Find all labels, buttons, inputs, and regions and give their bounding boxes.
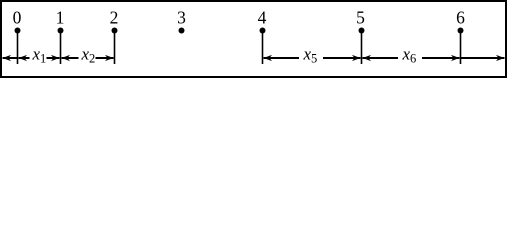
- dimension x1: arrowhead right (tip at stem 1): [51, 55, 60, 61]
- point 3 dot (no stem): [179, 28, 185, 34]
- point 6 dot: [458, 28, 464, 34]
- left edge arrowhead pointing left at frame: [3, 55, 12, 61]
- point 1 dot: [58, 28, 64, 34]
- x2 left shaft: [62, 57, 79, 59]
- svg-text:0: 0: [13, 7, 22, 27]
- dimension x1: arrowhead left (tip at stem 0): [19, 55, 28, 61]
- border frame: [1, 1, 506, 77]
- right edge dimension shaft (point 6 to frame): [461, 57, 505, 59]
- svg-text:4: 4: [258, 7, 267, 27]
- point 1 stem: [60, 31, 62, 65]
- x1 right shaft: [47, 57, 60, 59]
- svg-text:3: 3: [177, 7, 186, 27]
- point 4 stem: [262, 31, 264, 65]
- left edge dimension shaft (frame to point 0): [3, 57, 18, 59]
- right edge arrowhead pointing right at frame: [496, 55, 505, 61]
- point 5 dot: [359, 28, 365, 34]
- dimension x2: arrowhead left (tip at stem 1): [62, 55, 71, 61]
- x6 left shaft: [363, 57, 399, 59]
- svg-text:5: 5: [356, 7, 365, 27]
- svg-text:6: 6: [456, 7, 465, 27]
- x5 right shaft: [323, 57, 361, 59]
- dimension x2: arrowhead right (tip at stem 2): [105, 55, 114, 61]
- point 0 stem: [17, 31, 19, 65]
- dimension x5: arrowhead left (tip at stem 4): [264, 55, 273, 61]
- x1 left shaft: [19, 57, 30, 59]
- point 0 dot: [15, 28, 21, 34]
- dimension x6: arrowhead right (tip at stem 6): [451, 55, 460, 61]
- point 6 stem: [460, 31, 462, 65]
- x5 left shaft: [264, 57, 300, 59]
- x2 right shaft: [96, 57, 114, 59]
- svg-text:1: 1: [56, 7, 65, 27]
- x6 right shaft: [422, 57, 460, 59]
- dimension x5: arrowhead right (tip at stem 5): [352, 55, 361, 61]
- point 4 dot: [260, 28, 266, 34]
- dimension x6: arrowhead left (tip at stem 5): [363, 55, 372, 61]
- point 2 dot: [112, 28, 118, 34]
- point 5 stem: [361, 31, 363, 65]
- svg-text:2: 2: [110, 7, 119, 27]
- point 2 stem: [114, 31, 116, 65]
